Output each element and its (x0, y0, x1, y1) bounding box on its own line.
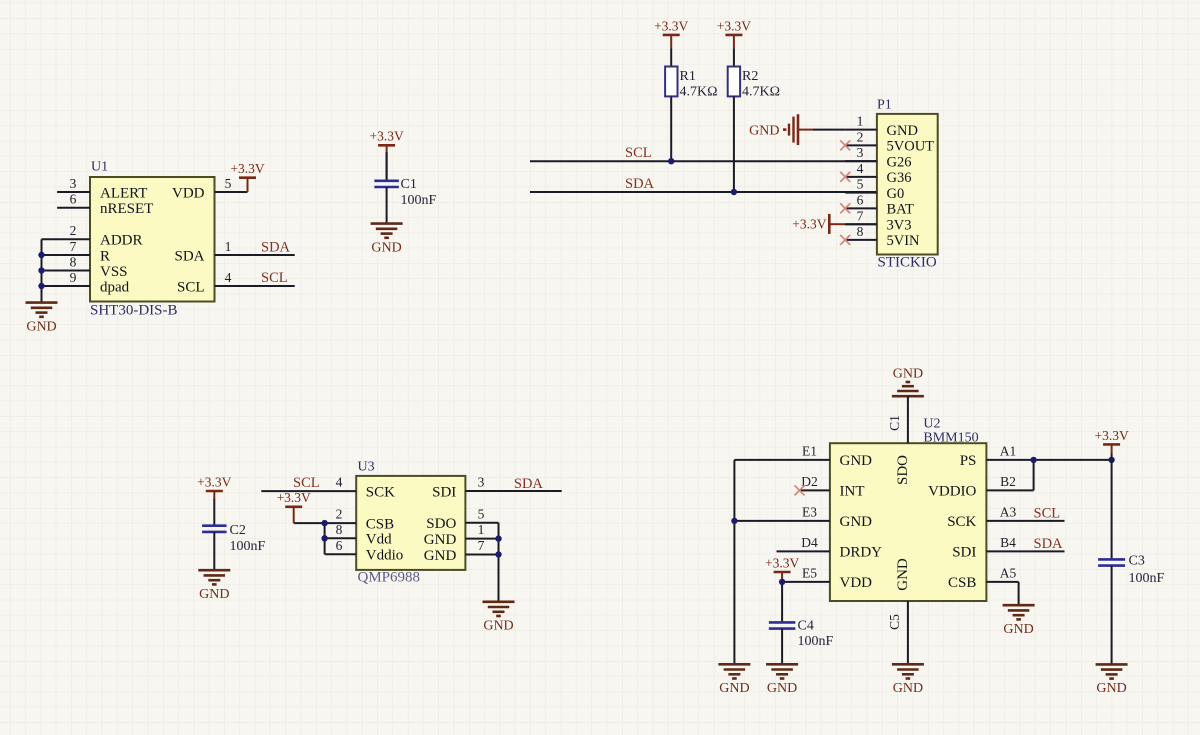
svg-text:B4: B4 (1000, 535, 1016, 550)
connector P1 body (877, 114, 938, 255)
U3 pin 3 (SDI) (432, 475, 562, 501)
svg-text:A5: A5 (1000, 566, 1017, 581)
U2 pin A1 (PS) (960, 444, 1112, 470)
U1 pin 4 (SCL) (177, 270, 295, 296)
no-connect X P1 pin 2 (840, 140, 850, 150)
svg-text:SCL: SCL (1034, 505, 1061, 521)
wire net SCL bus (530, 160, 877, 162)
svg-text:C2: C2 (230, 523, 246, 538)
svg-text:B2: B2 (1000, 474, 1016, 489)
junction U3 CSB (321, 520, 327, 526)
U2 pin C1 (SDO) top (887, 396, 911, 485)
svg-text:VDD: VDD (840, 575, 873, 591)
U1 pin 2 (ADDR) (42, 223, 143, 249)
U3 pin 1 (GND) (424, 522, 499, 548)
U2 pin E5 (VDD) (782, 566, 872, 592)
junction U2 E3 (731, 518, 737, 524)
capacitor C4 (769, 619, 834, 649)
P1 pin 2 (5VOUT) (840, 130, 934, 155)
svg-text:SDA: SDA (1034, 536, 1064, 552)
svg-text:C1: C1 (887, 415, 902, 431)
svg-text:2: 2 (70, 223, 77, 238)
U2 pin B4 (SDI) (952, 535, 1064, 561)
svg-text:R1: R1 (680, 69, 696, 84)
svg-text:6: 6 (336, 538, 343, 553)
svg-text:SDA: SDA (261, 239, 291, 255)
U1 pin 1 (SDA) (174, 239, 294, 264)
capacitor C2 (202, 523, 265, 554)
svg-text:C4: C4 (798, 619, 814, 634)
svg-text:SDI: SDI (432, 484, 456, 500)
svg-text:SCL: SCL (261, 270, 288, 286)
svg-text:BAT: BAT (887, 202, 915, 218)
svg-text:+3.3V: +3.3V (654, 18, 688, 33)
wire C2 bottom (213, 532, 215, 570)
svg-text:nRESET: nRESET (100, 201, 153, 217)
ground (E1/E3) (718, 664, 750, 696)
junction U1 pin7 (38, 252, 44, 258)
wire C1 top (386, 152, 388, 181)
svg-text:R2: R2 (742, 69, 758, 84)
svg-text:BMM150: BMM150 (923, 431, 978, 446)
junction U3 GND pin1 (495, 535, 501, 541)
svg-text:7: 7 (857, 208, 864, 223)
ground (U2 top) (892, 367, 924, 397)
svg-text:GND: GND (424, 532, 457, 548)
IC U1 body (90, 177, 215, 302)
svg-text:5VOUT: 5VOUT (887, 139, 935, 155)
power +3.3V (C3) (1094, 428, 1128, 460)
P1 pin 4 (G36) (840, 161, 911, 186)
svg-text:SCL: SCL (177, 279, 205, 295)
svg-text:SDI: SDI (952, 545, 976, 561)
P1 pin 1 (GND) (845, 114, 918, 139)
U1 pin 6 (nRESET) (57, 192, 153, 218)
no-connect X P1 pin 4 (840, 172, 850, 182)
svg-text:SCK: SCK (366, 484, 395, 500)
svg-text:SDA: SDA (174, 248, 204, 264)
svg-text:C1: C1 (401, 177, 417, 192)
junction U1 pin9 (38, 283, 44, 289)
svg-text:A3: A3 (1000, 505, 1017, 520)
wire GND port to P1 pin1 (813, 129, 845, 131)
svg-text:GND: GND (767, 681, 797, 696)
U2 pin E1 (GND) (734, 444, 872, 470)
svg-text:VDDIO: VDDIO (928, 484, 976, 500)
U2 pin B2 (VDDIO) (928, 474, 1034, 500)
U2 pin D4 (DRDY) (777, 535, 883, 561)
svg-text:GND: GND (893, 367, 923, 382)
svg-text:Vdd: Vdd (366, 532, 392, 548)
svg-text:GND: GND (1096, 681, 1126, 696)
svg-text:1: 1 (478, 522, 485, 537)
capacitor C1 (374, 177, 436, 208)
svg-text:CSB: CSB (948, 575, 976, 591)
svg-text:GND: GND (840, 453, 873, 469)
svg-text:4: 4 (225, 270, 232, 285)
IC U3 body (356, 476, 465, 570)
ground (C3) (1096, 664, 1128, 696)
svg-text:4: 4 (336, 475, 343, 490)
power GND port (P1 pin1) (749, 114, 813, 145)
junction R1/SCL (668, 158, 674, 164)
svg-text:GND: GND (749, 123, 779, 138)
U3 pin 5 (SDO) (426, 506, 498, 532)
no-connect X P1 pin 6 (840, 203, 850, 213)
wire U2 E1/E3 bus (733, 460, 735, 664)
svg-text:SHT30-DIS-B: SHT30-DIS-B (90, 303, 178, 319)
svg-text:100nF: 100nF (798, 634, 834, 649)
junction +3.3V/A1 (1108, 457, 1114, 463)
svg-text:GND: GND (895, 558, 911, 591)
U1 pin 8 (VSS) (42, 254, 128, 280)
no-connect X P1 pin 8 (840, 235, 850, 245)
wire C1 bottom (386, 187, 388, 224)
ground (C2) (198, 570, 230, 602)
svg-text:INT: INT (840, 484, 865, 500)
svg-text:5VIN: 5VIN (887, 233, 921, 249)
svg-text:VSS: VSS (100, 264, 128, 280)
svg-text:4: 4 (857, 161, 864, 176)
svg-text:GND: GND (840, 514, 873, 530)
svg-text:100nF: 100nF (230, 539, 266, 554)
U1 pin 3 (ALERT) (57, 176, 147, 202)
svg-text:R: R (100, 248, 110, 264)
svg-text:+3.3V: +3.3V (717, 18, 751, 33)
junction U3 Vdd (321, 535, 327, 541)
U2 pin A5 (CSB) (948, 566, 1019, 592)
svg-text:5: 5 (225, 176, 232, 191)
svg-text:DRDY: DRDY (840, 545, 883, 561)
svg-text:100nF: 100nF (1129, 571, 1165, 586)
svg-text:VDD: VDD (172, 185, 205, 201)
svg-text:dpad: dpad (100, 279, 130, 295)
wire +3.3V to P1 pin7 (845, 223, 877, 225)
U2 pin D2 (INT) (795, 474, 865, 500)
svg-text:GND: GND (893, 681, 923, 696)
wire net SDA bus (530, 191, 877, 193)
svg-text:PS: PS (960, 453, 977, 469)
svg-text:SCK: SCK (947, 514, 976, 530)
svg-text:U1: U1 (91, 160, 108, 175)
svg-text:U3: U3 (358, 460, 375, 475)
U3 pin 2 (CSB) (294, 507, 394, 533)
svg-text:5: 5 (478, 506, 485, 521)
svg-text:SDO: SDO (426, 516, 456, 532)
svg-text:GND: GND (199, 587, 229, 602)
svg-text:ALERT: ALERT (100, 185, 147, 201)
U3 pin 4 (SCK) (261, 475, 395, 501)
junction U2 E5 (779, 579, 785, 585)
svg-text:U2: U2 (923, 417, 940, 432)
ground (U2 C5) (892, 664, 924, 696)
svg-text:8: 8 (857, 224, 864, 239)
wire U1 ADDR/R/VSS/dpad bus (41, 239, 43, 302)
power +3.3V (U2 VDD) (765, 555, 799, 582)
svg-text:1: 1 (857, 114, 864, 129)
svg-text:9: 9 (70, 270, 77, 285)
wire U3 SDO/GND bus (498, 523, 500, 602)
power +3.3V (C1) (369, 129, 403, 181)
svg-text:+3.3V: +3.3V (369, 129, 403, 144)
junction R2/SDA (731, 189, 737, 195)
svg-text:5: 5 (857, 177, 864, 192)
svg-text:1: 1 (225, 239, 232, 254)
svg-text:SCL: SCL (625, 145, 652, 161)
svg-text:G36: G36 (887, 170, 912, 186)
svg-text:E3: E3 (802, 505, 817, 520)
svg-text:3: 3 (70, 176, 77, 191)
wire U2 B2 to A1 (1033, 460, 1035, 491)
svg-text:SDO: SDO (895, 455, 911, 485)
svg-text:Vddio: Vddio (366, 548, 404, 564)
svg-text:3V3: 3V3 (887, 218, 912, 234)
P1 pin 8 (5VIN) (840, 224, 920, 249)
svg-text:7: 7 (478, 538, 485, 553)
wire VDD to C4 (781, 582, 783, 623)
svg-text:ADDR: ADDR (100, 233, 143, 249)
power +3.3V (P1 pin7) (792, 214, 845, 234)
svg-text:GND: GND (1003, 622, 1033, 637)
P1 pin 6 (BAT) (840, 193, 914, 218)
P1 pin 5 (G0) (845, 177, 904, 202)
ground (U1) (26, 303, 58, 335)
svg-text:6: 6 (70, 192, 77, 207)
ground (U3) (483, 602, 515, 634)
svg-text:GND: GND (424, 548, 457, 564)
wire R2 to SDA (733, 96, 735, 192)
svg-text:QMP6988: QMP6988 (358, 570, 421, 586)
svg-text:8: 8 (336, 522, 343, 537)
U3 pin 7 (GND) (424, 538, 499, 564)
svg-text:6: 6 (857, 193, 864, 208)
U3 pin 8 (Vdd) (325, 522, 393, 548)
U2 pin E3 (GND) (734, 505, 872, 531)
svg-text:E5: E5 (802, 566, 817, 581)
P1 pin 7 (3V3) (845, 208, 911, 233)
U1 pin 5 (VDD) (172, 176, 248, 202)
svg-text:2: 2 (336, 507, 343, 522)
wire U3 Vdd/Vddio bus (324, 523, 326, 554)
svg-text:8: 8 (70, 254, 77, 269)
svg-text:2: 2 (857, 130, 864, 145)
junction U3 GND pin7 (495, 551, 501, 557)
wire U2 A5 to GND (1018, 582, 1020, 605)
U3 pin 6 (Vddio) (325, 538, 404, 564)
svg-text:D4: D4 (801, 535, 818, 550)
svg-text:3: 3 (857, 145, 864, 160)
svg-text:+3.3V: +3.3V (197, 474, 231, 489)
svg-text:100nF: 100nF (401, 193, 437, 208)
U1 pin 7 (R) (42, 239, 111, 264)
svg-text:STICKIO: STICKIO (878, 255, 937, 271)
power +3.3V (R1) (654, 18, 688, 66)
wire R1 to SCL (670, 96, 672, 161)
U2 pin C5 (GND) bottom (887, 558, 911, 664)
power +3.3V (C2) (197, 474, 231, 525)
svg-text:GND: GND (719, 681, 749, 696)
svg-text:P1: P1 (877, 98, 892, 113)
no-connect X U2 INT (795, 485, 805, 495)
svg-text:+3.3V: +3.3V (1094, 428, 1128, 443)
svg-text:GND: GND (371, 240, 401, 255)
svg-text:SCL: SCL (293, 475, 320, 491)
svg-text:7: 7 (70, 239, 77, 254)
P1 pin 3 (G26) (845, 145, 911, 170)
svg-text:SDA: SDA (514, 476, 544, 492)
ground (U2 CSB) (1003, 605, 1035, 637)
wire C3 bottom (1111, 566, 1113, 665)
svg-text:GND: GND (26, 319, 56, 334)
svg-text:+3.3V: +3.3V (230, 161, 264, 176)
capacitor C3 (1098, 554, 1164, 586)
svg-text:G0: G0 (887, 186, 905, 202)
svg-text:+3.3V: +3.3V (277, 490, 311, 505)
wire +3.3V to C3 (1111, 460, 1113, 560)
resistor R2 (728, 67, 780, 100)
svg-text:A1: A1 (1000, 444, 1017, 459)
svg-text:G26: G26 (887, 154, 912, 170)
wire C4 bottom (781, 629, 783, 665)
svg-text:GND: GND (887, 123, 918, 139)
svg-text:+3.3V: +3.3V (765, 555, 799, 570)
svg-text:CSB: CSB (366, 516, 394, 532)
IC U2 body (830, 443, 987, 601)
svg-text:GND: GND (483, 619, 513, 634)
svg-text:SDA: SDA (625, 176, 655, 192)
svg-text:4.7KΩ: 4.7KΩ (680, 84, 718, 99)
junction U2 A1 (1030, 457, 1036, 463)
svg-text:E1: E1 (802, 444, 817, 459)
U2 pin A3 (SCK) (947, 505, 1064, 531)
svg-text:+3.3V: +3.3V (792, 217, 826, 232)
resistor R1 (665, 67, 717, 100)
svg-text:4.7KΩ: 4.7KΩ (742, 84, 780, 99)
svg-text:3: 3 (478, 475, 485, 490)
ground (C1) (371, 224, 403, 256)
ground (C4) (766, 664, 798, 696)
U1 pin 9 (dpad) (42, 270, 130, 296)
power +3.3V (U3) (277, 490, 311, 523)
power +3.3V (R2) (717, 18, 751, 66)
junction U1 pin8 (38, 267, 44, 273)
power +3.3V (U1 VDD) (230, 161, 264, 192)
svg-text:C3: C3 (1129, 554, 1145, 569)
svg-text:C5: C5 (887, 614, 902, 630)
